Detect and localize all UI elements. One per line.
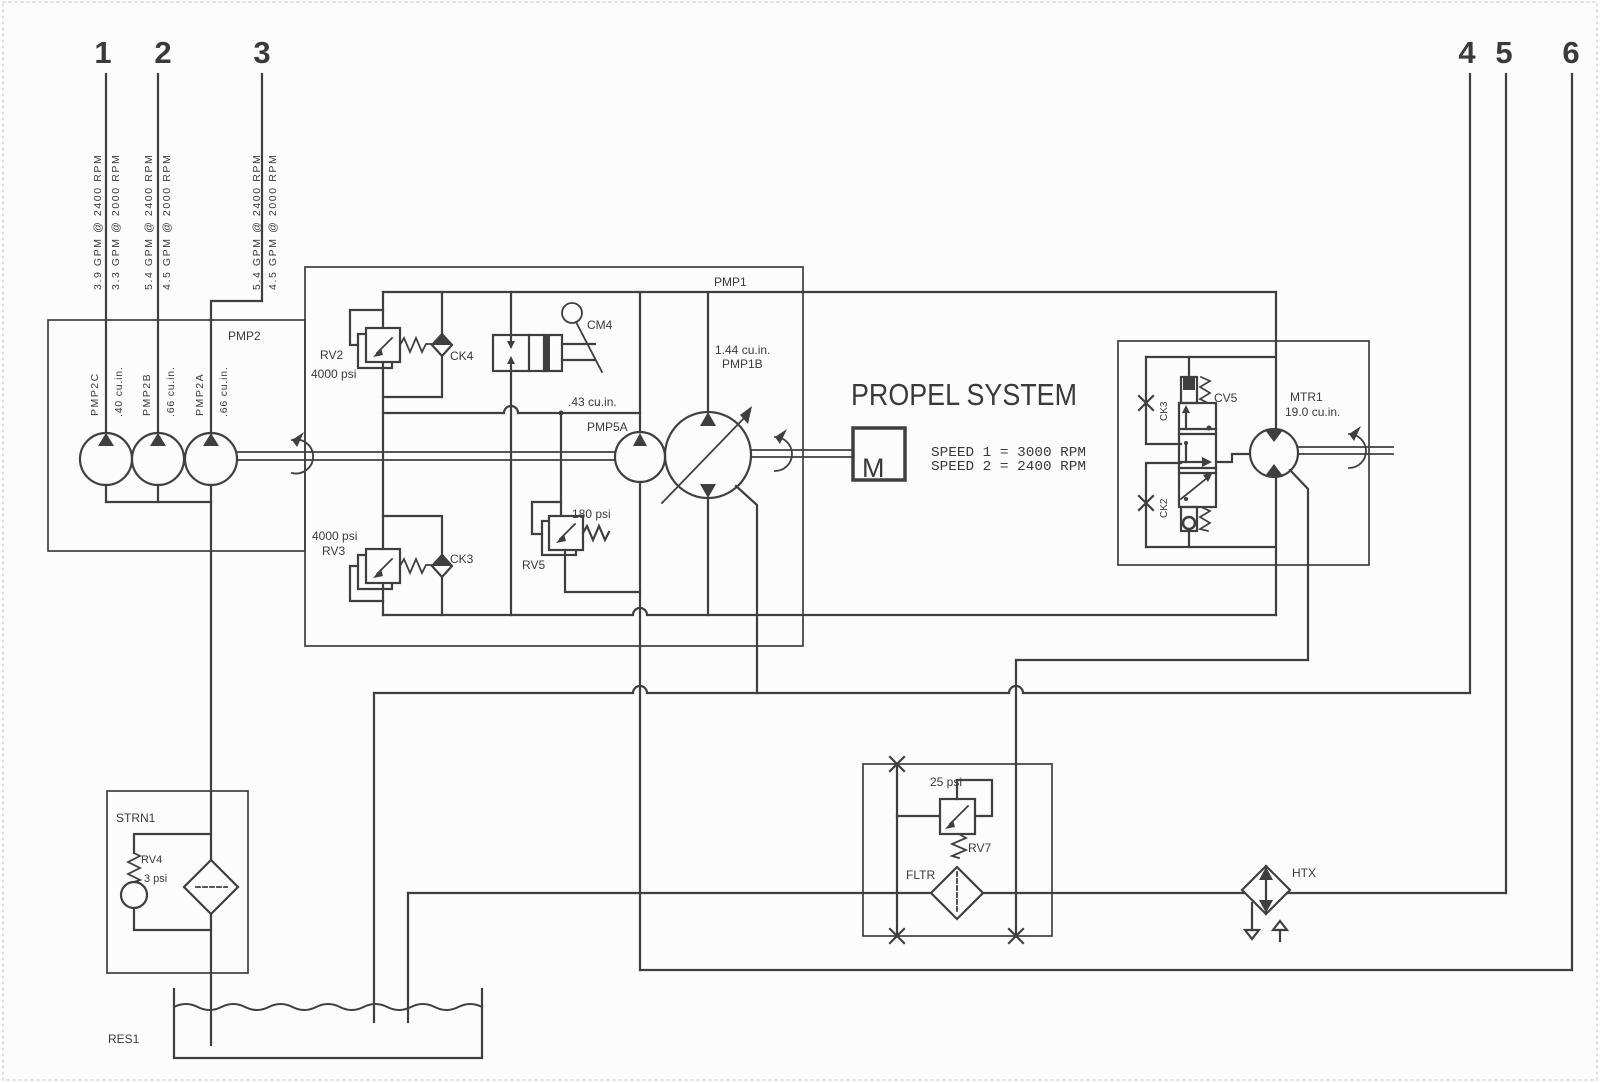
svg-text:.40 cu.in.: .40 cu.in. <box>113 366 125 417</box>
svg-text:5: 5 <box>1495 35 1512 70</box>
wire line 5 <box>1505 74 1507 893</box>
wire return line (to line 5) <box>408 892 1506 894</box>
shaft pumps <box>237 451 615 453</box>
wire left lower branch with orifice CK2 <box>1146 463 1181 547</box>
wire motor drain to filter <box>1016 659 1308 661</box>
svg-text:4000 psi: 4000 psi <box>312 529 357 543</box>
svg-text:CK3: CK3 <box>450 552 474 566</box>
svg-text:SPEED 2 = 2400 RPM: SPEED 2 = 2400 RPM <box>931 460 1086 475</box>
shaft motor output <box>1298 446 1393 448</box>
wire return drop to reservoir <box>407 893 409 1022</box>
svg-text:M: M <box>862 453 885 483</box>
wire drop to reservoir <box>373 693 375 1022</box>
enclosure PMP1 <box>305 267 803 646</box>
svg-text:1: 1 <box>94 35 111 70</box>
svg-text:FLTR: FLTR <box>906 868 935 882</box>
wire PMP5A outlet / case drain <box>639 482 641 970</box>
shaft rotation arrow <box>1349 434 1366 468</box>
svg-text:RES1: RES1 <box>108 1032 140 1046</box>
relief valve RV3 <box>358 555 392 589</box>
svg-text:6: 6 <box>1562 35 1579 70</box>
shaft rotation arrow <box>775 437 792 471</box>
wire drain bus (to line 4) <box>374 686 1470 693</box>
svg-text:4.5 GPM @ 2000 RPM: 4.5 GPM @ 2000 RPM <box>161 154 173 290</box>
relief valve RV7 <box>897 815 940 817</box>
enclosure motor block <box>1118 341 1369 565</box>
wire valve block top line <box>1146 356 1276 358</box>
wire line 6 <box>1571 74 1573 970</box>
wire motor case drain <box>1290 470 1308 660</box>
svg-text:PROPEL SYSTEM: PROPEL SYSTEM <box>851 377 1077 412</box>
svg-text:PMP2A: PMP2A <box>194 373 206 416</box>
svg-text:3.3 GPM @ 2000 RPM: 3.3 GPM @ 2000 RPM <box>110 154 122 290</box>
relief valve RV5 <box>560 413 562 516</box>
svg-text:.66 cu.in.: .66 cu.in. <box>218 366 230 417</box>
wire charge gallery <box>383 291 1276 293</box>
svg-text:25 psi: 25 psi <box>930 775 962 789</box>
wire filter bypass riser <box>896 764 898 936</box>
valve CV5 <box>1188 357 1190 377</box>
enclosure PMP2 <box>48 320 305 551</box>
svg-text:PMP1: PMP1 <box>714 275 747 289</box>
svg-text:PMP2C: PMP2C <box>89 372 101 416</box>
wire line 4 <box>1469 74 1471 693</box>
svg-text:RV5: RV5 <box>522 558 545 572</box>
svg-text:PMP1B: PMP1B <box>722 357 763 371</box>
svg-text:PMP5A: PMP5A <box>587 420 628 434</box>
svg-text:SPEED 1 = 3000 RPM: SPEED 1 = 3000 RPM <box>931 446 1086 461</box>
wire suction line to strainer <box>210 485 212 1045</box>
check valve CK3 <box>383 516 442 555</box>
wire charge branch to PMP5A and RV5 <box>383 406 640 413</box>
svg-text:RV4: RV4 <box>141 854 162 866</box>
control valve CM4 <box>510 292 512 346</box>
pump PMP2B <box>132 433 184 485</box>
wire line 1 <box>105 74 107 433</box>
svg-text:3.9 GPM @ 2400 RPM: 3.9 GPM @ 2400 RPM <box>92 154 104 290</box>
svg-text:CV5: CV5 <box>1214 391 1238 405</box>
relief valve RV2 <box>358 334 392 368</box>
wire pump case drains <box>105 485 107 502</box>
enclosure STRN1 <box>107 791 248 973</box>
svg-text:RV2: RV2 <box>320 348 343 362</box>
relief valve RV4 <box>134 834 211 853</box>
charge pump PMP5A <box>615 432 665 482</box>
svg-text:CK3: CK3 <box>1159 401 1170 421</box>
svg-text:RV3: RV3 <box>322 544 345 558</box>
motor MTR1 <box>1250 429 1298 477</box>
svg-text:2: 2 <box>154 35 171 70</box>
wire bottom drain bus (to line 6) <box>640 969 1572 971</box>
plugged port X top <box>890 757 904 771</box>
svg-text:180 psi: 180 psi <box>572 507 611 521</box>
svg-text:3 psi: 3 psi <box>144 873 167 885</box>
svg-text:1.44 cu.in.: 1.44 cu.in. <box>715 343 770 357</box>
svg-text:PMP2B: PMP2B <box>141 373 153 416</box>
svg-text:HTX: HTX <box>1292 866 1316 880</box>
shaft PMP1B to motor M <box>751 449 852 451</box>
svg-text:4.5 GPM @ 2000 RPM: 4.5 GPM @ 2000 RPM <box>267 154 279 290</box>
svg-text:CK2: CK2 <box>1159 498 1170 518</box>
check valve CK4 <box>441 292 443 334</box>
svg-text:3: 3 <box>253 35 270 70</box>
reservoir RES1 <box>174 989 482 1058</box>
svg-text:.43 cu.in.: .43 cu.in. <box>568 395 617 409</box>
vent drain left <box>1251 903 1253 930</box>
svg-text:5.4 GPM @ 2400 RPM: 5.4 GPM @ 2400 RPM <box>251 154 263 290</box>
wire valve to motor port <box>1216 454 1250 462</box>
wire internal left line <box>382 292 384 615</box>
wire internal bottom line / motor return <box>383 608 1276 615</box>
wire valve block bottom line <box>1146 546 1276 548</box>
filter FLTR element <box>931 867 983 919</box>
svg-text:STRN1: STRN1 <box>116 811 156 825</box>
wire line 3 <box>211 74 262 433</box>
wire motor return riser <box>1275 477 1277 615</box>
pump PMP2A <box>185 433 237 485</box>
svg-text:19.0 cu.in.: 19.0 cu.in. <box>1285 405 1340 419</box>
svg-text:RV7: RV7 <box>968 841 991 855</box>
vent drain right <box>1273 921 1287 930</box>
svg-text:CM4: CM4 <box>587 318 613 332</box>
svg-text:CK4: CK4 <box>450 349 474 363</box>
plugged port X bottom left <box>890 929 904 943</box>
plugged port X bottom right <box>1009 929 1023 943</box>
wire PMP1B case drain <box>736 486 757 693</box>
svg-text:PMP2: PMP2 <box>228 329 261 343</box>
heat exchanger HTX <box>1242 866 1290 914</box>
wire line 2 <box>157 74 159 433</box>
pump PMP1B (variable displacement) <box>707 292 709 412</box>
svg-text:MTR1: MTR1 <box>1290 390 1323 404</box>
motor M box <box>853 428 905 480</box>
pump PMP2C <box>80 433 132 485</box>
svg-text:4: 4 <box>1458 35 1476 70</box>
strainer element <box>184 860 238 914</box>
shaft rotation arrow <box>292 440 313 474</box>
wire PMP5A suction drop <box>639 292 641 432</box>
svg-text:.66 cu.in.: .66 cu.in. <box>165 366 177 417</box>
wire left upper branch with orifice CK3 <box>1146 357 1181 444</box>
svg-text:4000 psi: 4000 psi <box>311 367 356 381</box>
wire motor supply drop <box>1275 292 1277 429</box>
svg-text:5.4 GPM @ 2400 RPM: 5.4 GPM @ 2400 RPM <box>143 154 155 290</box>
enclosure FLTR block <box>863 764 1052 936</box>
